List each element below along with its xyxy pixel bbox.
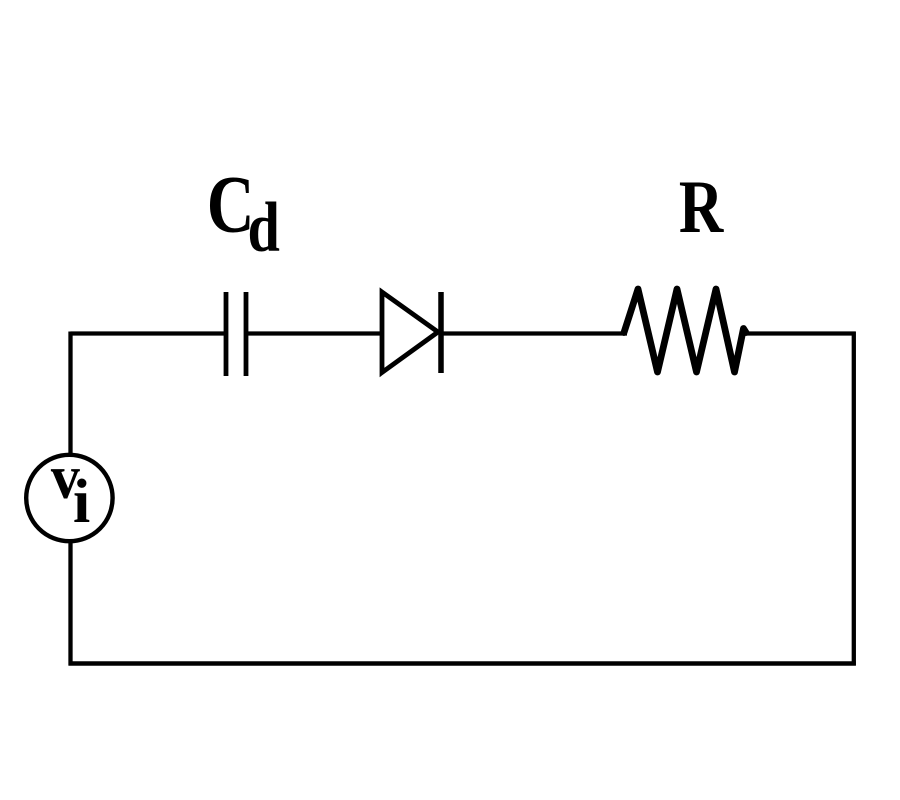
wire diode to resistor (441, 331, 627, 335)
wire capacitor to diode (246, 331, 382, 335)
wire right vertical (852, 332, 856, 666)
capacitor Cd right plate (244, 292, 249, 376)
capacitor Cd left plate (224, 292, 229, 376)
wire bottom (69, 661, 856, 666)
wire left vertical lower (68, 542, 72, 666)
wire resistor to top-right corner (744, 331, 856, 335)
diode D1 triangle (382, 292, 438, 373)
voltage source vi circle (26, 455, 112, 541)
resistor R zigzag (624, 289, 746, 372)
wire left vertical upper (68, 332, 72, 455)
diode D1 cathode bar (438, 292, 444, 373)
wire top-left segment (71, 331, 227, 335)
svg-text:i: i (73, 468, 90, 536)
svg-text:d: d (248, 189, 280, 268)
svg-text:R: R (679, 165, 725, 248)
